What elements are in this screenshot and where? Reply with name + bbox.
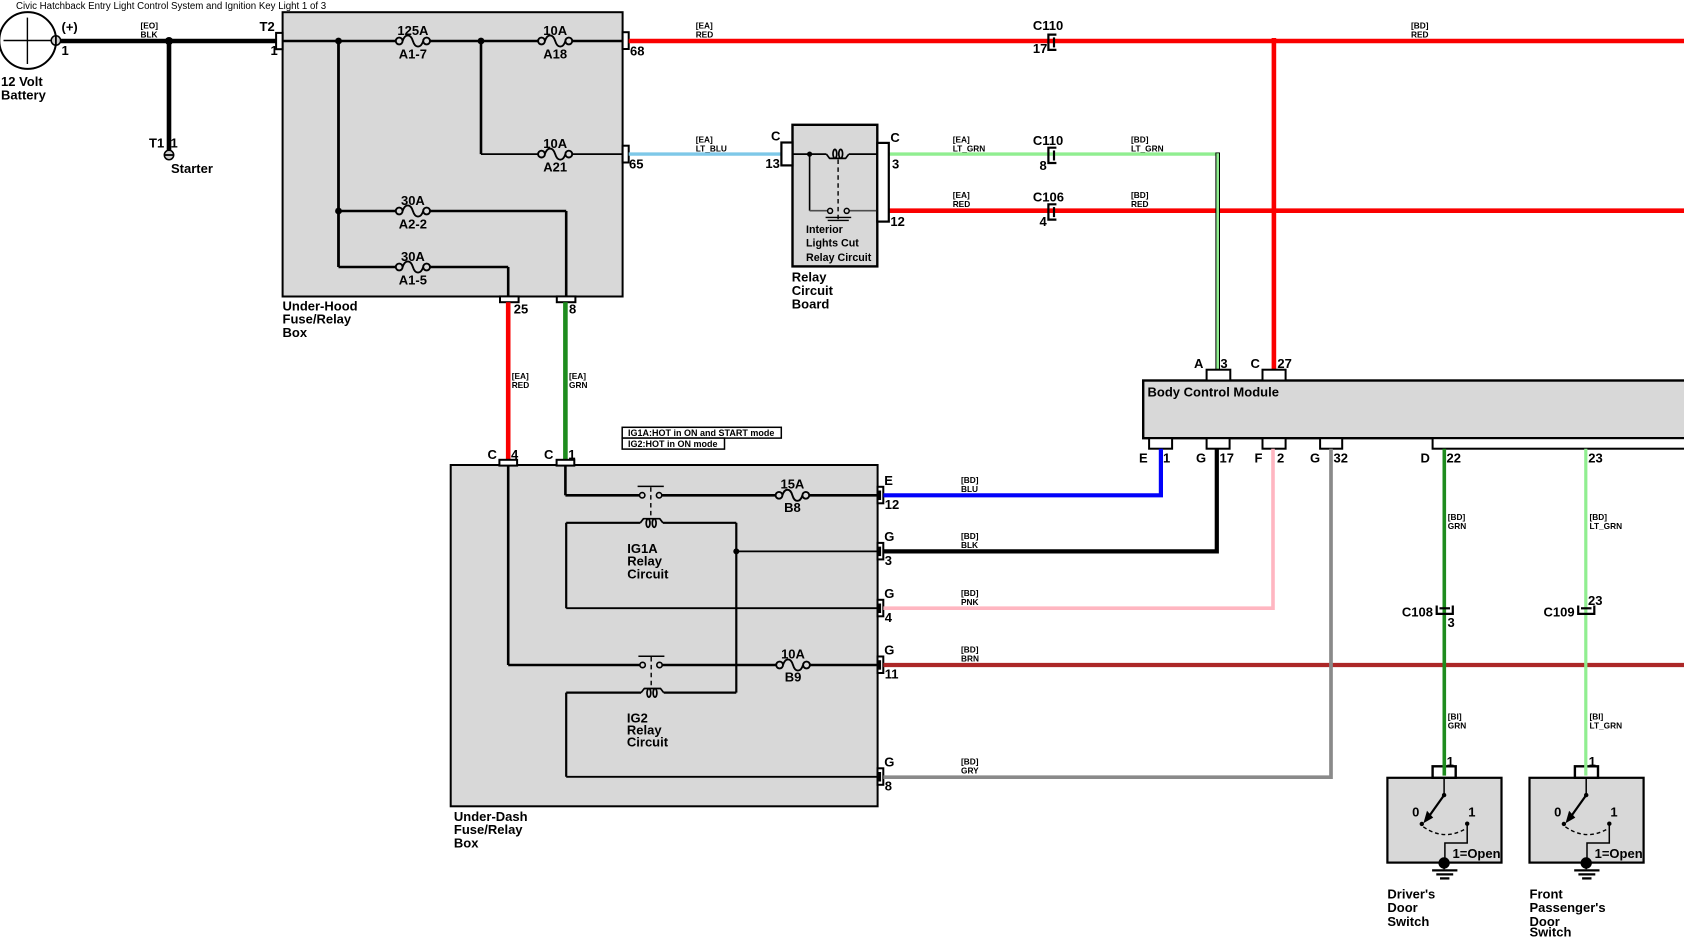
svg-text:125A: 125A	[397, 23, 429, 38]
wire [EA] LT_GRN relay board to C110 8 and beyond	[889, 152, 1220, 155]
svg-text:2: 2	[1277, 450, 1284, 465]
wire A2-2 row	[339, 211, 567, 297]
wire LT_GRN vertical to BCM A 3 with black edges	[1215, 153, 1220, 372]
wire A21 vertical	[480, 41, 483, 154]
label Interior Lights Cut Relay Circuit	[806, 224, 872, 264]
svg-text:IG2:HOT in ON mode: IG2:HOT in ON mode	[628, 439, 718, 449]
svg-text:23: 23	[1588, 450, 1602, 465]
relay actuator dashed	[837, 160, 839, 220]
svg-text:Body Control Module: Body Control Module	[1148, 384, 1279, 399]
node IG1A output junction	[733, 548, 739, 554]
IG2 relay contact	[638, 656, 664, 687]
wire relay contact row	[810, 210, 878, 212]
label IG1A Relay Circuit	[627, 541, 669, 581]
svg-text:13: 13	[765, 156, 779, 171]
svg-text:1=Open: 1=Open	[1595, 846, 1643, 861]
svg-text:Box: Box	[454, 836, 479, 851]
svg-text:E: E	[1139, 450, 1148, 465]
svg-text:C: C	[890, 130, 900, 145]
connector relay board C right	[877, 143, 889, 222]
svg-text:Lights Cut: Lights Cut	[806, 237, 859, 249]
svg-text:Box: Box	[283, 325, 308, 340]
svg-text:E: E	[884, 473, 893, 488]
svg-text:LT_GRN: LT_GRN	[1590, 721, 1623, 731]
svg-text:C: C	[544, 447, 554, 462]
svg-text:4: 4	[1040, 214, 1048, 229]
label Relay Circuit Board	[792, 270, 834, 312]
svg-text:1: 1	[62, 43, 69, 58]
junction at starter tap	[165, 37, 173, 45]
connector C 1 input	[557, 460, 575, 466]
svg-text:BRN: BRN	[961, 654, 979, 664]
svg-text:G: G	[884, 643, 894, 658]
relay contact bars	[826, 217, 852, 220]
svg-text:30A: 30A	[401, 193, 425, 208]
connector passenger switch pin 1	[1575, 766, 1598, 778]
svg-text:1: 1	[171, 136, 178, 151]
svg-text:10A: 10A	[781, 646, 805, 661]
fuse 10A A21	[538, 136, 572, 175]
svg-text:A18: A18	[543, 46, 567, 61]
svg-text:LT_GRN: LT_GRN	[1131, 143, 1164, 153]
connector BCM F 2 bottom	[1263, 438, 1286, 449]
node junction bus top	[335, 38, 342, 45]
svg-text:Civic Hatchback Entry Light Co: Civic Hatchback Entry Light Control Syst…	[16, 1, 326, 12]
wire [BD] GRN BCM D22 down	[1443, 449, 1447, 776]
wire B9 row	[508, 664, 877, 667]
svg-text:C109: C109	[1544, 605, 1575, 620]
svg-text:1: 1	[1468, 805, 1475, 820]
Relay Circuit Board box	[793, 125, 878, 267]
svg-text:Circuit: Circuit	[627, 734, 669, 749]
wire B8 row	[565, 494, 877, 497]
svg-text:Switch: Switch	[1530, 925, 1572, 937]
connector C110 pin 17	[1048, 35, 1056, 50]
label Driver's Door Switch	[1387, 886, 1435, 928]
wire [EA] RED from pin 68 to right edge	[629, 39, 1684, 44]
svg-text:GRN: GRN	[569, 380, 587, 390]
svg-text:T1: T1	[149, 136, 164, 151]
svg-text:F: F	[1255, 450, 1263, 465]
svg-text:10A: 10A	[543, 23, 567, 38]
wire relay coil row	[793, 153, 878, 155]
svg-text:12: 12	[885, 497, 899, 512]
connector T2 pin 1	[276, 33, 283, 49]
label Under-Dash Fuse/Relay Box	[454, 809, 528, 851]
wire [BD] PNK G4 to BCM F2	[883, 449, 1273, 609]
svg-text:Switch: Switch	[1387, 914, 1429, 929]
svg-text:G: G	[1310, 450, 1320, 465]
svg-text:17: 17	[1033, 41, 1047, 56]
wire [BD] GRY G8 to BCM G32	[883, 449, 1331, 778]
label IG2 Relay Circuit	[627, 711, 669, 750]
connector underdash G 3	[878, 543, 884, 560]
svg-text:3: 3	[885, 553, 892, 568]
ground driver switch	[1432, 857, 1457, 878]
svg-text:4: 4	[511, 447, 519, 462]
svg-text:RED: RED	[953, 199, 971, 209]
fuse 10A B9	[776, 646, 810, 684]
svg-text:11: 11	[885, 666, 899, 681]
svg-text:Battery: Battery	[1, 87, 47, 102]
wire [EA] LT_BLU from pin 65 to relay board	[629, 152, 782, 155]
svg-text:LT_BLU: LT_BLU	[696, 143, 727, 153]
svg-text:G: G	[884, 529, 894, 544]
wire [EA] RED underhood 25 to underdash C 4	[506, 302, 511, 460]
Under-Hood Fuse/Relay Box	[283, 12, 623, 296]
svg-text:27: 27	[1277, 356, 1291, 371]
svg-text:B8: B8	[784, 500, 801, 515]
wire RED vertical to BCM C 27	[1272, 38, 1277, 371]
svg-text:C106: C106	[1033, 189, 1064, 204]
connector BCM E 1 bottom	[1149, 438, 1172, 449]
svg-text:8: 8	[885, 778, 892, 793]
svg-text:G: G	[1196, 450, 1206, 465]
svg-text:RED: RED	[1411, 30, 1429, 40]
svg-text:25: 25	[514, 301, 528, 316]
svg-text:1: 1	[1610, 805, 1617, 820]
wire [BD] BRN G11 to right edge	[883, 663, 1684, 667]
IG2 relay coil loop	[566, 689, 736, 777]
svg-text:3: 3	[1448, 615, 1455, 630]
connector C 4 input	[499, 460, 517, 466]
svg-text:1: 1	[1447, 754, 1454, 769]
svg-text:T2: T2	[260, 19, 275, 34]
label Under-Hood Fuse/Relay Box	[283, 298, 358, 340]
relay contact circles	[828, 208, 850, 213]
svg-text:22: 22	[1447, 450, 1461, 465]
svg-text:8: 8	[569, 301, 576, 316]
connector C109 pin 23	[1578, 606, 1594, 614]
connector pin 25	[500, 296, 519, 302]
battery B1 12 Volt Battery	[0, 12, 56, 69]
wire G3 row	[736, 550, 877, 552]
svg-text:G: G	[884, 755, 894, 770]
svg-text:C: C	[1251, 356, 1261, 371]
svg-text:IG1A:HOT in ON and START mode: IG1A:HOT in ON and START mode	[628, 428, 774, 438]
svg-text:A1-7: A1-7	[399, 46, 427, 61]
svg-text:Interior: Interior	[806, 224, 843, 236]
connector C110 pin 8	[1048, 148, 1056, 163]
svg-text:10A: 10A	[543, 136, 567, 151]
fuse 15A B8	[776, 477, 810, 515]
wire relay left drop	[809, 154, 811, 211]
svg-text:C: C	[488, 447, 498, 462]
svg-text:1=Open: 1=Open	[1453, 846, 1501, 861]
svg-text:C: C	[771, 129, 781, 144]
wire [EA] GRN underhood 8 to underdash C 1	[563, 302, 568, 460]
svg-text:4: 4	[885, 610, 893, 625]
svg-text:17: 17	[1220, 450, 1234, 465]
passenger switch internals	[1554, 778, 1643, 861]
connector BCM G 32 bottom	[1320, 438, 1342, 449]
connector BCM C 27 top	[1263, 370, 1286, 381]
svg-text:3: 3	[1220, 356, 1227, 371]
node relay board junction	[807, 152, 812, 157]
svg-text:30A: 30A	[401, 249, 425, 264]
connector BCM D wide bottom	[1433, 438, 1684, 449]
connector C108 pin 3	[1437, 606, 1453, 614]
Under-Dash Fuse/Relay Box	[451, 465, 878, 806]
svg-text:A1-5: A1-5	[399, 272, 427, 287]
wire C4 feed drop	[507, 465, 510, 665]
Front Passenger's Door Switch box	[1530, 778, 1644, 863]
driver switch internals	[1412, 778, 1501, 861]
connector pin 65	[623, 146, 629, 163]
svg-text:Board: Board	[792, 296, 830, 311]
connector underdash G 4	[878, 600, 884, 617]
svg-text:GRN: GRN	[1448, 521, 1466, 531]
svg-text:68: 68	[630, 43, 644, 58]
svg-text:LT_GRN: LT_GRN	[953, 143, 986, 153]
connector underdash G 11	[878, 657, 884, 674]
svg-text:RED: RED	[1131, 199, 1149, 209]
svg-text:C110: C110	[1033, 133, 1063, 148]
svg-text:15A: 15A	[780, 477, 804, 492]
svg-text:1: 1	[1589, 754, 1596, 769]
svg-text:1: 1	[568, 447, 575, 462]
connector underdash G 8	[878, 768, 884, 785]
note box IG1A	[622, 427, 781, 438]
svg-text:BLK: BLK	[961, 540, 978, 550]
svg-text:8: 8	[1040, 158, 1047, 173]
wire [BD] LT_GRN BCM 23 down	[1584, 449, 1587, 776]
node junction A2-2 tap	[335, 208, 342, 215]
svg-text:B9: B9	[785, 670, 802, 685]
starter terminal T1	[164, 150, 173, 159]
svg-text:0: 0	[1554, 805, 1561, 820]
node junction A21 tap	[478, 38, 485, 45]
svg-text:A: A	[1194, 356, 1204, 371]
fuse 10A A18	[538, 23, 572, 62]
wire A1-5 row	[339, 267, 509, 297]
svg-text:A21: A21	[543, 160, 567, 175]
svg-text:RED: RED	[512, 380, 530, 390]
wire down to starter	[167, 41, 172, 151]
connector C106 pin 4	[1048, 204, 1056, 219]
Driver's Door Switch box	[1387, 778, 1501, 863]
svg-text:D: D	[1421, 450, 1430, 465]
svg-text:RED: RED	[696, 30, 714, 40]
svg-text:G: G	[884, 586, 894, 601]
ground passenger switch	[1574, 857, 1599, 878]
svg-text:A2-2: A2-2	[399, 216, 427, 231]
note box IG2	[622, 438, 724, 449]
svg-text:C110: C110	[1033, 18, 1063, 33]
svg-text:23: 23	[1588, 593, 1602, 608]
wire main bus row y41	[283, 40, 623, 43]
fuse 30A A1-5	[396, 249, 430, 288]
wire vertical bus	[337, 41, 340, 267]
label Front Passenger's Door Switch	[1530, 886, 1606, 937]
wire G4 row	[566, 607, 877, 609]
wire A21 row	[481, 153, 623, 155]
wire [EA] RED relay board 12 to C106 and right edge	[889, 208, 1684, 213]
wire [BD] BLK G3 to BCM G17	[883, 449, 1216, 552]
wire C1 feed drop	[564, 465, 567, 495]
Body Control Module box	[1143, 381, 1684, 439]
svg-text:PNK: PNK	[961, 597, 979, 607]
connector underdash E 12	[878, 487, 884, 504]
relay coil interior lights cut	[826, 149, 848, 158]
connector relay board C 13	[781, 143, 792, 166]
connector pin 68	[623, 32, 629, 49]
fuse 30A A2-2	[396, 193, 430, 232]
svg-text:BLU: BLU	[961, 484, 978, 494]
svg-text:1: 1	[1163, 450, 1170, 465]
svg-text:(+): (+)	[62, 20, 78, 35]
svg-text:0: 0	[1412, 805, 1419, 820]
connector pin 8	[557, 296, 576, 302]
IG1A relay coil loop	[566, 519, 736, 693]
svg-text:65: 65	[629, 156, 643, 171]
svg-text:Starter: Starter	[171, 161, 213, 176]
IG1A relay contact	[638, 486, 664, 517]
fuse 125A A1-7	[396, 23, 430, 62]
svg-text:32: 32	[1334, 450, 1348, 465]
battery positive terminal	[51, 36, 60, 45]
connector BCM A 3 top	[1207, 370, 1231, 381]
svg-text:GRY: GRY	[961, 765, 979, 775]
svg-text:LT_GRN: LT_GRN	[1590, 521, 1623, 531]
wire [BD] BLU E12 to BCM E1	[883, 449, 1161, 496]
svg-text:Circuit: Circuit	[627, 566, 669, 581]
svg-text:3: 3	[892, 156, 899, 171]
svg-text:GRN: GRN	[1448, 721, 1466, 731]
wire G8 row	[566, 776, 877, 778]
svg-text:C108: C108	[1402, 605, 1433, 620]
connector BCM G 17 bottom	[1207, 438, 1230, 449]
svg-text:BLK: BLK	[141, 30, 158, 40]
wire battery to T2 [EO] BLK	[58, 39, 276, 44]
svg-text:12: 12	[890, 214, 904, 229]
svg-text:Relay Circuit: Relay Circuit	[806, 252, 872, 264]
connector driver switch pin 1	[1433, 766, 1456, 778]
